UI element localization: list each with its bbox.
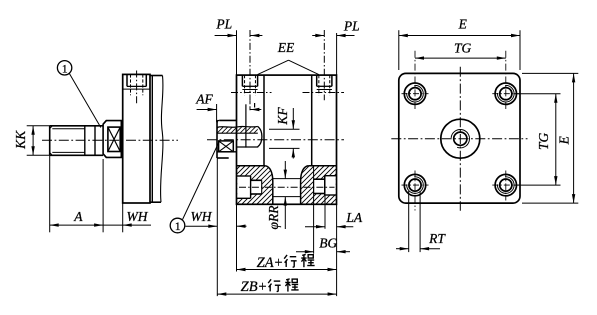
svg-text:A: A bbox=[73, 209, 83, 224]
svg-text:WH: WH bbox=[191, 209, 213, 224]
svg-text:1: 1 bbox=[175, 221, 181, 233]
svg-text:PL: PL bbox=[343, 19, 360, 34]
svg-text:RT: RT bbox=[428, 231, 446, 246]
svg-text:TG: TG bbox=[454, 40, 472, 55]
svg-text:KF: KF bbox=[275, 107, 290, 126]
svg-text:KK: KK bbox=[13, 130, 28, 150]
svg-text:LA: LA bbox=[345, 210, 363, 225]
svg-text:φRR: φRR bbox=[266, 205, 281, 230]
svg-text:PL: PL bbox=[215, 17, 232, 32]
svg-text:WH: WH bbox=[127, 209, 149, 224]
svg-text:1: 1 bbox=[62, 63, 68, 75]
svg-text:E: E bbox=[458, 17, 468, 32]
svg-text:AF: AF bbox=[195, 92, 213, 107]
svg-text:TG: TG bbox=[536, 133, 551, 151]
svg-text:BG: BG bbox=[319, 236, 337, 251]
svg-text:ZB+: ZB+ bbox=[241, 279, 268, 295]
svg-text:ZA+: ZA+ bbox=[257, 255, 284, 271]
svg-text:E: E bbox=[557, 135, 572, 145]
svg-text:EE: EE bbox=[277, 40, 295, 55]
